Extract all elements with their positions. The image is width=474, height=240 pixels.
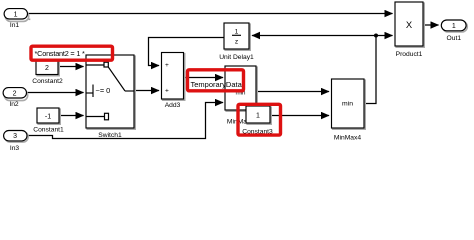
svg-text:1: 1 bbox=[452, 23, 456, 30]
svg-text:In2: In2 bbox=[9, 101, 19, 108]
svg-text:1: 1 bbox=[256, 112, 260, 119]
svg-text:~= 0: ~= 0 bbox=[96, 86, 111, 95]
svg-text:Switch1: Switch1 bbox=[98, 132, 122, 139]
svg-text:+: + bbox=[165, 87, 169, 94]
svg-text:*Constant2 = 1 *: *Constant2 = 1 * bbox=[35, 49, 86, 58]
svg-text:Out1: Out1 bbox=[447, 35, 462, 42]
svg-text:In3: In3 bbox=[10, 145, 20, 152]
svg-text:Constant1: Constant1 bbox=[33, 127, 64, 134]
svg-text:1: 1 bbox=[14, 11, 18, 18]
svg-text:3: 3 bbox=[13, 133, 17, 140]
svg-text:Add3: Add3 bbox=[165, 102, 181, 109]
svg-text:1: 1 bbox=[235, 29, 239, 36]
svg-text:Constant2: Constant2 bbox=[32, 78, 63, 85]
svg-text:z: z bbox=[235, 39, 238, 46]
svg-text:MinMax4: MinMax4 bbox=[334, 135, 361, 142]
svg-text:+: + bbox=[165, 62, 169, 69]
svg-text:In1: In1 bbox=[10, 22, 20, 29]
svg-text:Product1: Product1 bbox=[396, 51, 423, 58]
svg-text:min: min bbox=[342, 101, 353, 108]
svg-text:X: X bbox=[406, 19, 413, 30]
svg-text:TemporaryData: TemporaryData bbox=[191, 80, 243, 89]
svg-text:Unit Delay1: Unit Delay1 bbox=[219, 54, 254, 61]
svg-text:-1: -1 bbox=[45, 113, 51, 120]
svg-text:2: 2 bbox=[13, 90, 17, 97]
svg-text:2: 2 bbox=[45, 65, 49, 72]
